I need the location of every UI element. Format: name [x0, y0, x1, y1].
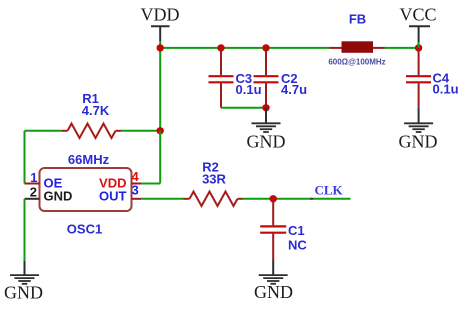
resistor R1 — [62, 91, 121, 138]
pin 1 OE — [25, 170, 63, 190]
pin 4 VDD — [99, 169, 141, 190]
svg-text:600Ω@100MHz: 600Ω@100MHz — [328, 58, 385, 67]
wire pin2 to ground — [24, 199, 26, 261]
svg-text:VDD: VDD — [141, 5, 180, 25]
junction at R1 right — [157, 127, 164, 134]
power port VDD — [141, 5, 180, 41]
junction at C3 top — [217, 44, 224, 51]
svg-text:GND: GND — [247, 131, 286, 151]
capacitor C2 — [254, 48, 308, 108]
svg-text:2: 2 — [30, 184, 37, 199]
capacitor C1 — [260, 199, 307, 260]
junction at VDD — [157, 44, 164, 51]
ground under C4 — [399, 108, 438, 152]
wire pin4 horizontal — [141, 183, 160, 185]
net label CLK — [310, 183, 344, 200]
svg-text:GND: GND — [44, 188, 73, 203]
svg-text:33R: 33R — [202, 171, 226, 186]
wire VDD vertical — [159, 41, 161, 131]
junction at VCC — [415, 44, 422, 51]
oscillator OSC1 — [40, 152, 132, 237]
svg-text:CLK: CLK — [315, 183, 344, 198]
wire R2 to CLK — [243, 198, 351, 200]
svg-text:VCC: VCC — [399, 5, 436, 25]
svg-text:0.1u: 0.1u — [236, 82, 262, 97]
resistor R2 — [184, 159, 243, 206]
svg-text:C1: C1 — [288, 223, 305, 238]
wire R1 left — [25, 130, 63, 132]
power port VCC — [399, 5, 436, 42]
junction at C1 top — [270, 195, 277, 202]
wire VDD to pin4 vertical — [159, 131, 161, 184]
ferrite bead FB — [328, 12, 385, 67]
svg-text:0.1u: 0.1u — [433, 81, 459, 96]
junction at C2 bottom — [262, 104, 269, 111]
capacitor C3 — [209, 48, 262, 108]
wire R1 right — [121, 130, 160, 132]
svg-text:4.7K: 4.7K — [82, 103, 110, 118]
svg-text:1: 1 — [30, 170, 37, 185]
svg-text:66MHz: 66MHz — [68, 152, 110, 167]
ground under C2 — [247, 108, 286, 152]
pin 2 GND — [25, 184, 73, 203]
capacitor C4 — [406, 48, 459, 108]
svg-text:GND: GND — [399, 131, 438, 151]
ground under C1 — [254, 260, 293, 303]
svg-text:OUT: OUT — [99, 188, 127, 203]
svg-text:4.7u: 4.7u — [281, 82, 307, 97]
svg-text:OSC1: OSC1 — [67, 222, 102, 237]
ground under pin2 — [4, 261, 43, 303]
wire top rail left — [160, 47, 330, 49]
junction at C2 top — [262, 44, 269, 51]
svg-text:NC: NC — [288, 237, 307, 252]
wire C3-C2 bottom — [221, 107, 266, 109]
svg-text:FB: FB — [349, 12, 366, 27]
wire pin3 to R2 — [141, 198, 184, 200]
pin 3 OUT — [99, 182, 141, 203]
svg-text:GND: GND — [4, 283, 43, 303]
svg-text:GND: GND — [254, 282, 293, 302]
wire VCC stub — [418, 42, 420, 48]
wire top rail right — [384, 47, 419, 49]
wire R1 left vertical to pin1 — [24, 131, 26, 184]
svg-text:3: 3 — [132, 182, 139, 197]
